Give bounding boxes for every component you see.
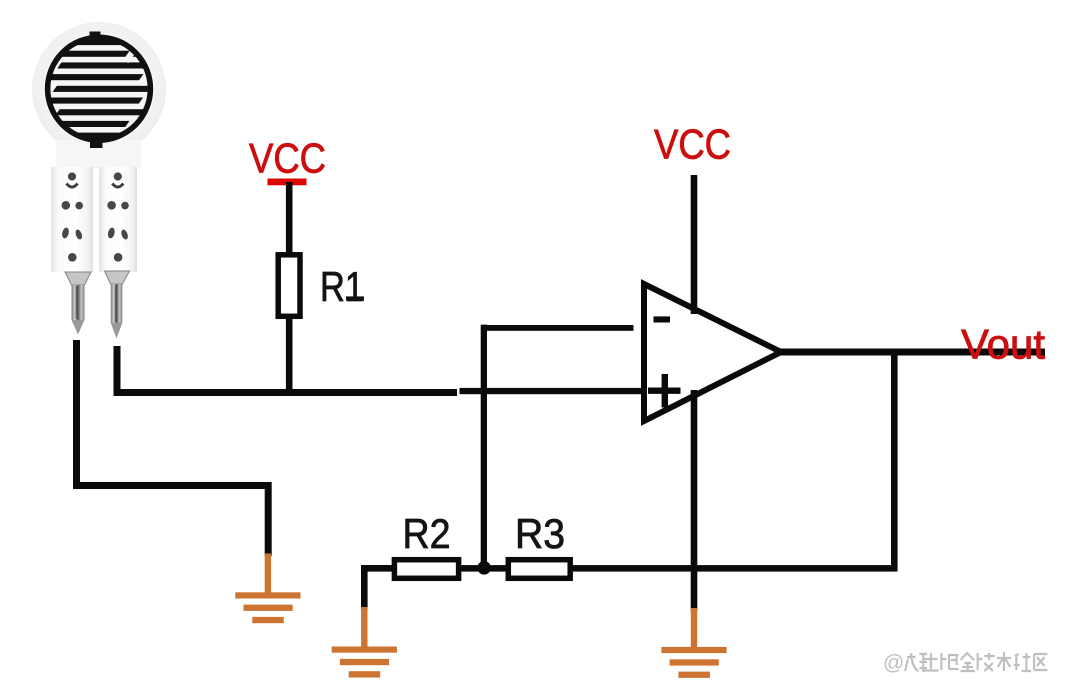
watermark — [883, 652, 1047, 675]
resistor R2 — [394, 560, 458, 579]
wire R2 to junction — [458, 565, 508, 572]
wire op-amp output — [779, 349, 1045, 356]
wire R1 to non-inverting node — [286, 317, 293, 395]
force sensor FSR1 — [32, 22, 166, 339]
wire VCC to op-amp V+ — [691, 175, 698, 314]
svg-text:VCC: VCC — [654, 121, 731, 168]
ground G3 (op-amp) — [661, 608, 726, 678]
wire feedback to junction — [481, 325, 487, 568]
wire non-inverting input segment — [460, 388, 645, 394]
wire R2 to ground leg — [364, 568, 396, 609]
wire op-amp V- to ground — [691, 390, 698, 611]
svg-text:R1: R1 — [320, 263, 364, 310]
svg-text:@: @ — [883, 652, 904, 675]
wire R3 to output node — [571, 565, 895, 572]
junction node dot — [477, 561, 491, 575]
power rail VCC (left) bar — [268, 179, 307, 186]
ground G1 (sensor) — [235, 554, 300, 624]
svg-text:R2: R2 — [403, 510, 451, 557]
svg-text:VCC: VCC — [249, 135, 326, 182]
wire sensor pin1 to ground — [77, 340, 269, 556]
svg-text:R3: R3 — [515, 510, 565, 557]
wire VCC to R1 — [286, 182, 293, 255]
resistor R3 — [508, 560, 570, 579]
svg-text:Vout: Vout — [961, 321, 1045, 368]
resistor R1 — [278, 255, 300, 316]
wire inverting input — [481, 325, 634, 331]
wire sensor pin2 to non-inverting input — [117, 346, 457, 393]
wire output to R3 — [891, 352, 898, 572]
ground G2 (R2) — [332, 607, 397, 678]
op-amp U1 — [644, 284, 781, 421]
